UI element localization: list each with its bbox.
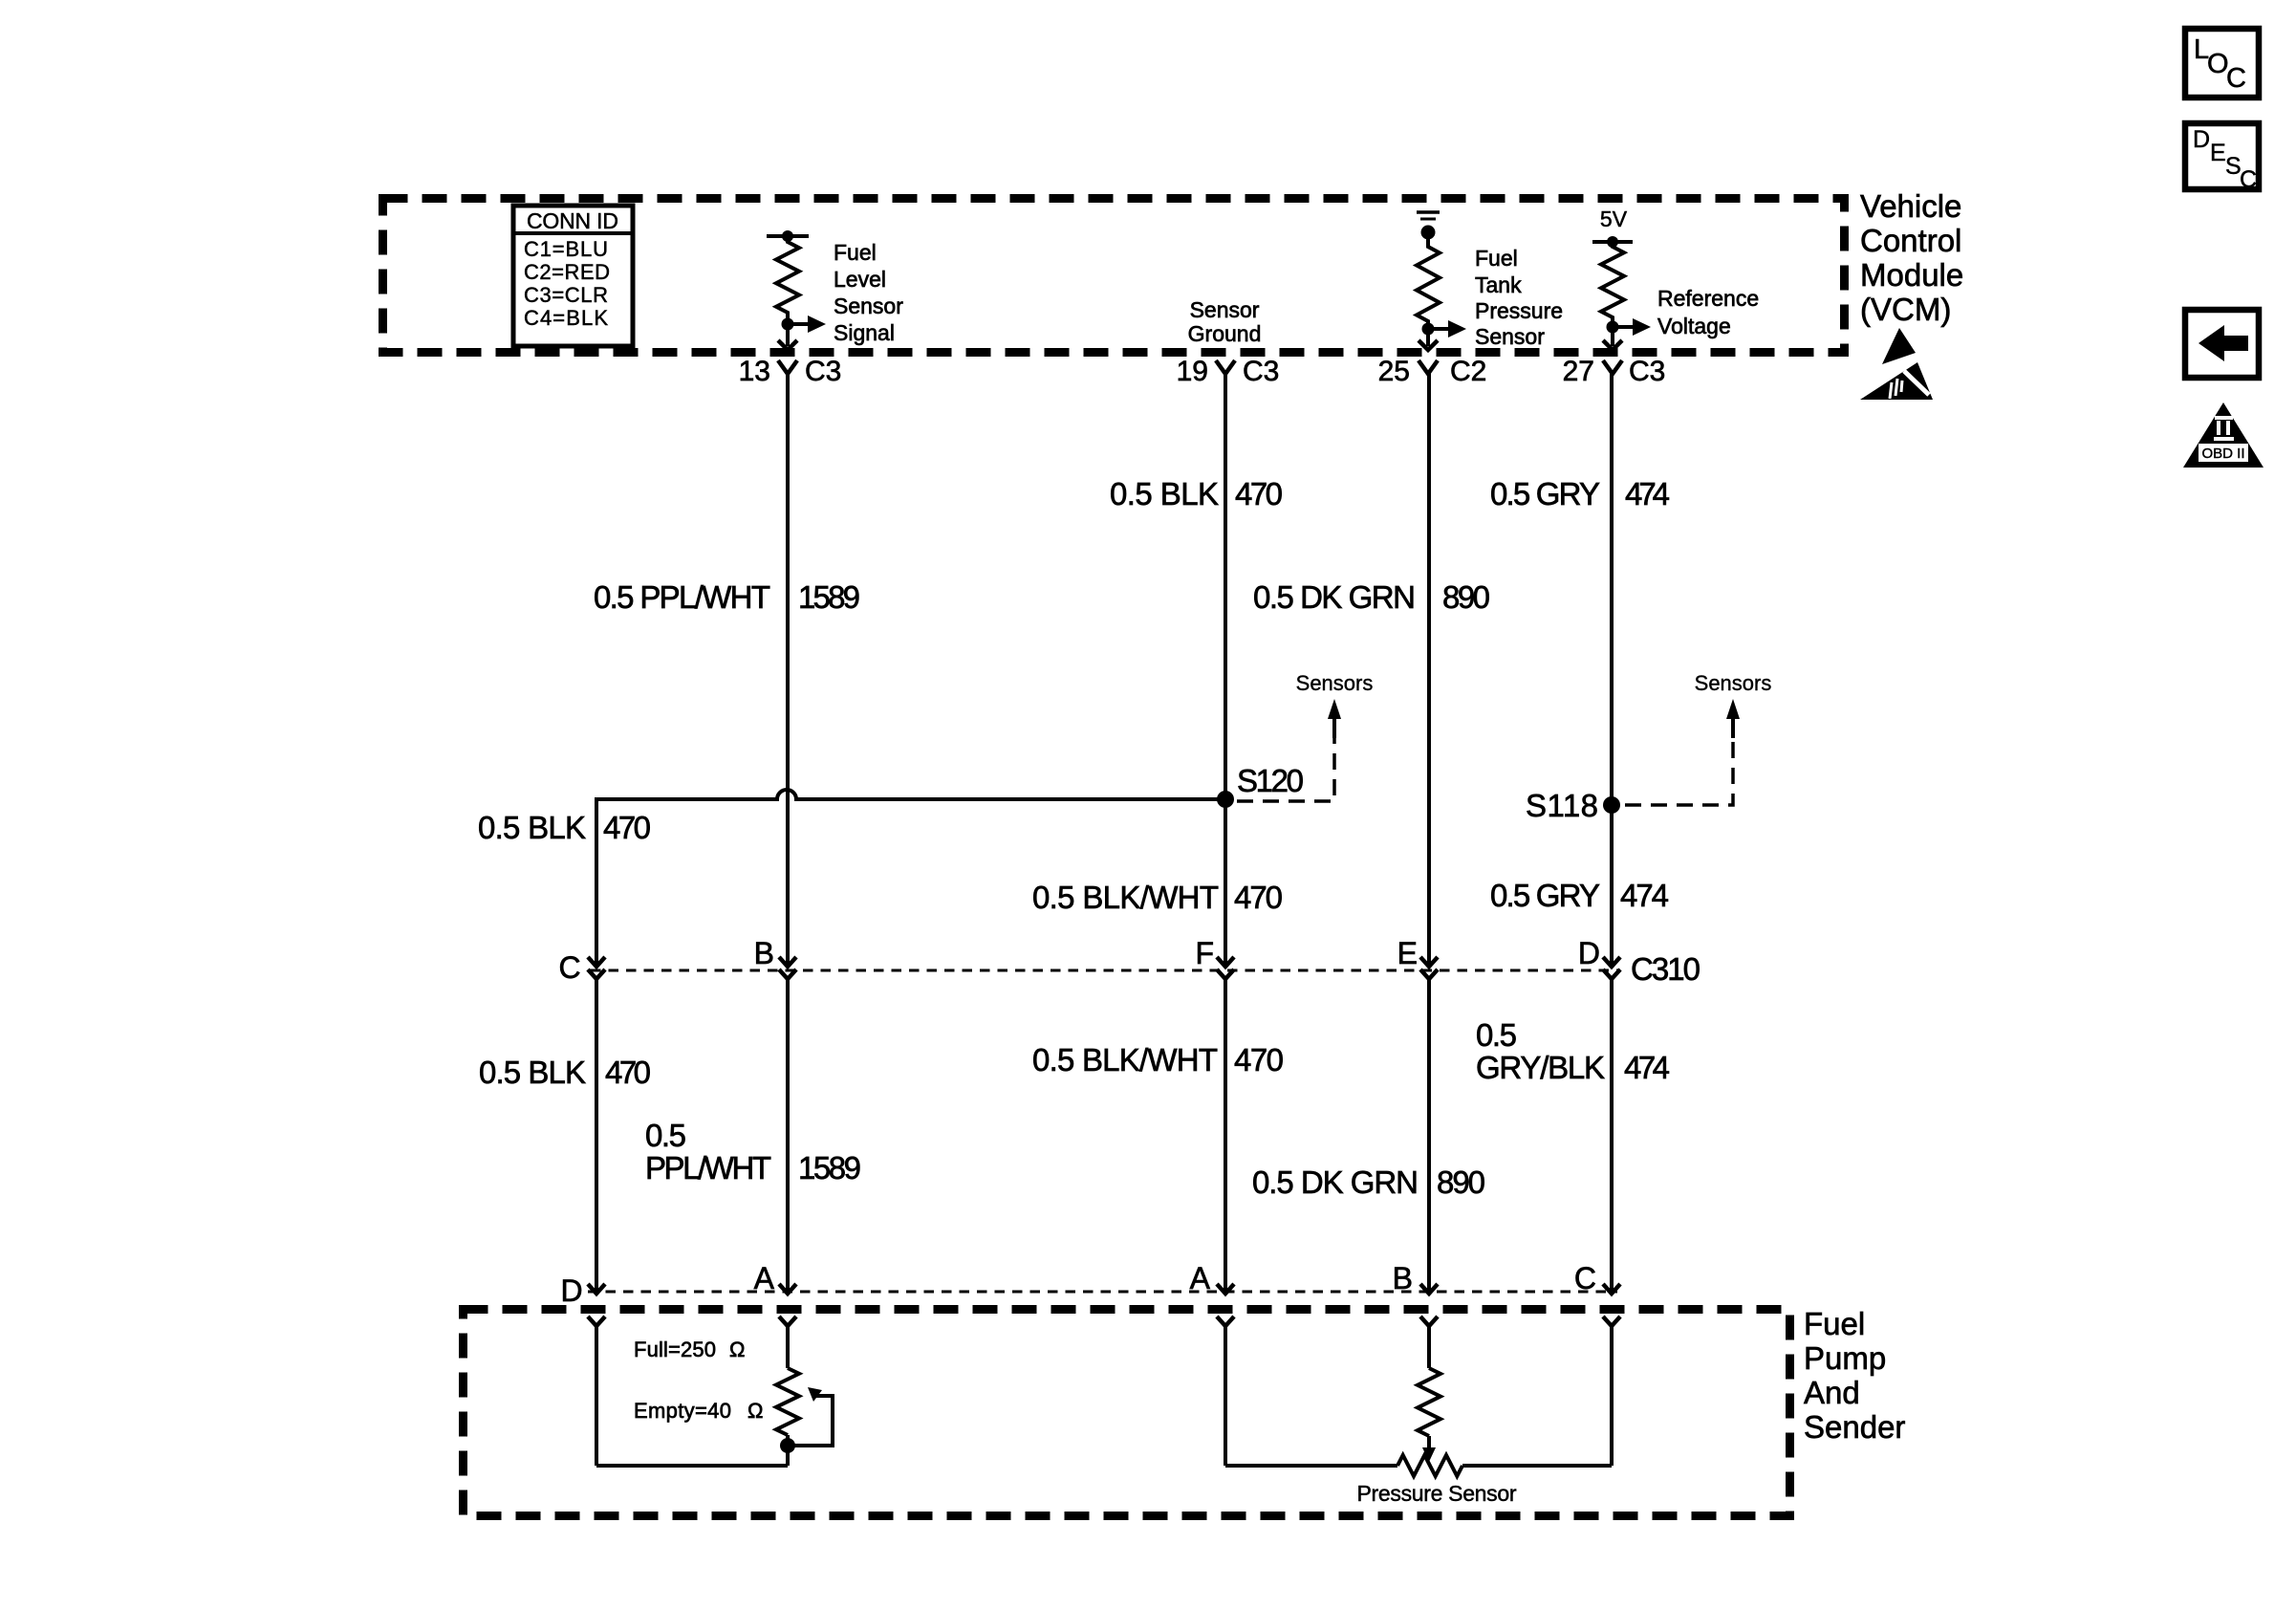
svg-text:0.5 BLK/WHT: 0.5 BLK/WHT xyxy=(1032,880,1219,915)
pin 25 C2 connector xyxy=(1378,356,1487,387)
svg-text:Sender: Sender xyxy=(1804,1409,1905,1445)
pin 13 C3 connector xyxy=(739,356,842,387)
wire label: 0.5 PPL/WHT 1589 (lower) xyxy=(645,1118,861,1186)
svg-text:C: C xyxy=(1574,1261,1596,1295)
svg-text:27: 27 xyxy=(1563,356,1594,387)
svg-text:470: 470 xyxy=(605,1055,651,1090)
wire label: 0.5 DK GRN 890 (upper) xyxy=(1253,579,1490,615)
VCM module dashed box xyxy=(383,199,1845,353)
svg-text:0.5 BLK: 0.5 BLK xyxy=(478,810,586,845)
svg-text:C: C xyxy=(2240,166,2257,193)
harness connector pin C xyxy=(1603,1284,1620,1326)
wire label: 0.5 BLK 470 (lower) xyxy=(479,1055,651,1090)
connector C310 pin D xyxy=(1603,957,1620,979)
ground symbol (VCM internal) xyxy=(1417,212,1440,240)
label: Fuel Level Sensor Signal xyxy=(834,240,903,345)
svg-text:0.5: 0.5 xyxy=(1476,1017,1517,1053)
Fuel Pump And Sender dashed box xyxy=(464,1310,1790,1516)
svg-text:Pump: Pump xyxy=(1804,1340,1886,1376)
svg-text:Fuel: Fuel xyxy=(1475,246,1518,271)
svg-text:Sensors: Sensors xyxy=(1695,671,1772,695)
wire label: 0.5 PPL/WHT 1589 xyxy=(594,579,860,615)
wire label: 0.5 GRY 474 (upper) xyxy=(1490,476,1670,511)
svg-text:Level: Level xyxy=(834,267,886,292)
variable resistor: fuel level sender xyxy=(776,1368,799,1466)
wire: BLK 470, pin 19 to C310 pin F xyxy=(1224,372,1227,964)
svg-text:Ω: Ω xyxy=(729,1338,745,1361)
svg-text:D: D xyxy=(1578,936,1600,970)
svg-text:890: 890 xyxy=(1442,579,1490,615)
svg-text:Full=250: Full=250 xyxy=(634,1338,716,1361)
harness connector pin A xyxy=(779,1284,796,1326)
wire: sender pin D to sender bottom xyxy=(595,1326,598,1466)
svg-text:1589: 1589 xyxy=(798,1150,861,1186)
wire: pressure sensor pin B to series resistor xyxy=(1427,1326,1431,1368)
wire: sender pin A to sender resistor xyxy=(786,1326,790,1368)
svg-text:1589: 1589 xyxy=(798,579,860,615)
ESD sensitivity symbol xyxy=(1860,328,1933,400)
label: Sensor Ground xyxy=(1188,297,1262,346)
wire: pressure sensor bottom right xyxy=(1462,1464,1612,1468)
svg-text:470: 470 xyxy=(603,810,651,845)
svg-text:Pressure Sensor: Pressure Sensor xyxy=(1357,1481,1517,1506)
harness connector pin A2 xyxy=(1217,1284,1234,1326)
svg-text:13: 13 xyxy=(739,356,770,387)
svg-text:D: D xyxy=(2193,126,2210,153)
svg-text:C3: C3 xyxy=(1243,356,1279,387)
svg-text:C: C xyxy=(2226,63,2246,94)
svg-text:Signal: Signal xyxy=(834,320,895,345)
pin 27 C3 connector xyxy=(1563,356,1666,387)
dashed reference to Sensors (S120) xyxy=(1237,671,1373,801)
svg-text:Module: Module xyxy=(1860,257,1963,293)
LOC icon xyxy=(2185,29,2259,98)
resistor: pressure sensor series element xyxy=(1418,1368,1440,1436)
5V supply xyxy=(1592,207,1633,248)
svg-text:25: 25 xyxy=(1378,356,1410,387)
resistor: fuel level sensor (VCM internal, pin 13) xyxy=(767,230,826,350)
svg-text:Sensor: Sensor xyxy=(834,294,903,318)
connector C310 pin B xyxy=(779,957,796,979)
wire: pressure sensor pin C drop xyxy=(1610,1326,1614,1466)
svg-text:Vehicle: Vehicle xyxy=(1860,188,1961,224)
wire: pressure sensor pin A drop xyxy=(1224,1326,1227,1466)
svg-text:0.5 GRY: 0.5 GRY xyxy=(1490,476,1600,511)
wire label: 0.5 GRY 474 (above C310) xyxy=(1490,878,1669,913)
resistor: reference voltage (VCM internal, pin 27) xyxy=(1601,242,1651,350)
wire: pressure sensor bottom left xyxy=(1225,1464,1397,1468)
harness connector pin D xyxy=(588,1284,605,1326)
svg-text:Tank: Tank xyxy=(1475,272,1522,297)
CONN ID table xyxy=(513,206,633,346)
svg-text:470: 470 xyxy=(1234,1042,1284,1077)
svg-text:0.5 DK GRN: 0.5 DK GRN xyxy=(1253,579,1416,615)
svg-text:D: D xyxy=(560,1273,582,1308)
label: Reference Voltage xyxy=(1657,286,1759,338)
svg-text:Control: Control xyxy=(1860,223,1961,258)
wire: PPL/WHT 1589, pin 13 to C310 pin B xyxy=(786,372,790,964)
svg-text:C1=BLU: C1=BLU xyxy=(524,237,608,261)
wire label: 0.5 BLK 470 (upper) xyxy=(1110,476,1283,511)
label: Vehicle Control Module (VCM) xyxy=(1860,188,1963,327)
svg-text:GRY/BLK: GRY/BLK xyxy=(1476,1050,1605,1085)
potentiometer element: pressure sensor xyxy=(1397,1455,1462,1476)
svg-text:Sensors: Sensors xyxy=(1296,671,1374,695)
wire: BLK/WHT 470, C310 F to pressure sensor pin A xyxy=(1224,979,1227,1291)
svg-text:0.5 PPL/WHT: 0.5 PPL/WHT xyxy=(594,579,770,615)
svg-text:474: 474 xyxy=(1624,1050,1670,1085)
svg-text:0.5 BLK: 0.5 BLK xyxy=(1110,476,1219,511)
svg-text:C310: C310 xyxy=(1631,951,1700,987)
junction S118 xyxy=(1526,788,1620,823)
back arrow icon xyxy=(2185,310,2259,378)
svg-text:C3: C3 xyxy=(805,356,841,387)
svg-text:Sensor: Sensor xyxy=(1475,324,1545,349)
svg-text:5V: 5V xyxy=(1600,207,1628,231)
dashed reference to Sensors (S118) xyxy=(1625,671,1771,805)
OBD II icon xyxy=(2183,402,2264,468)
wire label: 0.5 GRY/BLK 474 (below C310) xyxy=(1476,1017,1670,1085)
connector C310 pin F xyxy=(1217,957,1234,979)
svg-text:E: E xyxy=(1397,936,1418,970)
svg-text:CONN ID: CONN ID xyxy=(527,208,618,233)
connector C310 dashed line xyxy=(591,969,1620,972)
fuel pump harness connector dashed line xyxy=(588,1291,1617,1294)
wire: DK GRN 890, pin 25 to connector pin B xyxy=(1427,372,1431,964)
svg-text:0.5 DK GRN: 0.5 DK GRN xyxy=(1252,1164,1419,1200)
svg-text:Reference: Reference xyxy=(1657,286,1759,311)
harness connector pin B xyxy=(1420,1284,1438,1326)
svg-text:C3=CLR: C3=CLR xyxy=(524,283,608,307)
junction S120 xyxy=(1217,763,1304,808)
svg-text:0.5 BLK/WHT: 0.5 BLK/WHT xyxy=(1032,1042,1218,1077)
svg-text:474: 474 xyxy=(1620,878,1669,913)
svg-text:(VCM): (VCM) xyxy=(1860,292,1951,327)
label: Fuel Pump And Sender xyxy=(1804,1306,1905,1445)
svg-text:B: B xyxy=(1393,1261,1413,1295)
svg-text:Fuel: Fuel xyxy=(1804,1306,1865,1341)
wire label: 0.5 BLK 470 (branch) xyxy=(478,810,651,845)
svg-text:474: 474 xyxy=(1625,476,1670,511)
sender wiper arrow and loop xyxy=(780,1387,833,1453)
svg-text:470: 470 xyxy=(1235,476,1283,511)
svg-text:470: 470 xyxy=(1234,880,1283,915)
svg-text:C3: C3 xyxy=(1629,356,1665,387)
svg-text:0.5 BLK: 0.5 BLK xyxy=(479,1055,586,1090)
DESC icon xyxy=(2185,123,2259,193)
svg-text:19: 19 xyxy=(1177,356,1208,387)
svg-text:Sensor: Sensor xyxy=(1190,297,1260,322)
svg-text:Ω: Ω xyxy=(747,1399,763,1423)
svg-text:And: And xyxy=(1804,1375,1860,1410)
svg-text:Pressure: Pressure xyxy=(1475,298,1563,323)
svg-text:0.5: 0.5 xyxy=(645,1118,686,1153)
svg-text:OBD II: OBD II xyxy=(2201,446,2244,462)
svg-text:Ground: Ground xyxy=(1188,321,1262,346)
svg-text:C2=RED: C2=RED xyxy=(524,260,610,284)
svg-text:C2: C2 xyxy=(1450,356,1486,387)
svg-text:C4=BLK: C4=BLK xyxy=(524,306,608,330)
wire: DK GRN 890, to pressure sensor pin B xyxy=(1427,979,1431,1291)
svg-text:A: A xyxy=(1190,1261,1211,1295)
svg-text:F: F xyxy=(1195,936,1214,970)
wire label: 0.5 DK GRN 890 (lower) xyxy=(1252,1164,1485,1200)
svg-text:0.5 GRY: 0.5 GRY xyxy=(1490,878,1600,913)
wire: GRY 474, pin 27 to C310 pin D xyxy=(1610,372,1614,964)
svg-text:Fuel: Fuel xyxy=(834,240,877,265)
pressure sensor wiper arrow xyxy=(1422,1436,1436,1462)
wire: PPL/WHT 1589, C310 B to sender pin A xyxy=(786,979,790,1291)
pin 19 C3 connector xyxy=(1177,356,1280,387)
resistor: fuel tank pressure sensor (VCM internal, pin 25) xyxy=(1417,232,1466,350)
wire label: 0.5 BLK/WHT 470 (below C310) xyxy=(1032,1042,1284,1077)
wire: BLK 470 branch, S120 to C310 pin C (horizontal with hop + left vertical) xyxy=(596,790,1225,964)
wire: BLK 470, C310 C to sender pin D xyxy=(595,979,598,1291)
connector C310 pin C xyxy=(588,957,605,979)
svg-text:A: A xyxy=(754,1261,775,1295)
svg-text:C: C xyxy=(558,950,580,985)
svg-text:PPL/WHT: PPL/WHT xyxy=(645,1150,771,1186)
connector C310 pin E xyxy=(1420,957,1438,979)
wire: sender bottom to pin D xyxy=(596,1464,788,1468)
wire label: 0.5 BLK/WHT 470 (above C310) xyxy=(1032,880,1283,915)
svg-text:E: E xyxy=(2210,140,2226,166)
svg-text:Voltage: Voltage xyxy=(1657,314,1731,338)
svg-text:S120: S120 xyxy=(1237,763,1304,798)
svg-text:S118: S118 xyxy=(1526,788,1598,823)
svg-text:B: B xyxy=(754,936,774,970)
label: Fuel Tank Pressure Sensor xyxy=(1475,246,1563,349)
label: Full=250 ohm xyxy=(634,1338,745,1361)
svg-text:Empty=40: Empty=40 xyxy=(634,1399,731,1423)
wire: GRY/BLK 474, C310 D to pressure sensor pin C xyxy=(1610,979,1614,1291)
svg-text:890: 890 xyxy=(1437,1164,1485,1200)
label: Empty=40 ohm xyxy=(634,1399,763,1423)
